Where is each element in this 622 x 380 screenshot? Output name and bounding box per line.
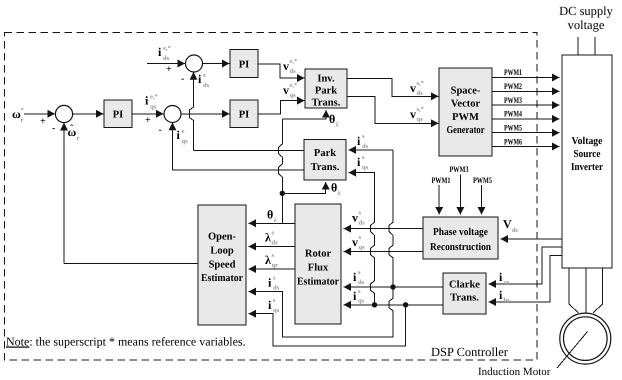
wire: theta to park transform	[282, 182, 325, 193]
svg-text:PWM5: PWM5	[473, 175, 492, 185]
wire: d-axis current reference input	[147, 63, 185, 65]
svg-text:e: e	[182, 128, 185, 135]
summing junction: d-axis current loop	[186, 55, 203, 72]
svg-text:Trans.: Trans.	[312, 98, 341, 109]
block: park transform	[304, 140, 346, 181]
svg-text:Park: Park	[314, 148, 336, 159]
svg-text:Inverter: Inverter	[571, 162, 603, 173]
svg-text:Phase voltage: Phase voltage	[433, 227, 488, 238]
block: inverse park transform	[305, 69, 347, 108]
svg-text:*: *	[21, 107, 24, 114]
induction motor inner circle	[564, 317, 608, 361]
wire: motor phase a	[569, 268, 579, 313]
wire: DC supply left lead	[577, 37, 579, 55]
svg-text:ds: ds	[359, 220, 366, 227]
block: voltage source inverter	[562, 55, 612, 268]
wire: theta to inverse park	[282, 110, 326, 119]
wire: inverse park q output to SVPWM	[347, 96, 439, 123]
svg-text:PI: PI	[113, 110, 124, 121]
node: theta branch junction	[280, 191, 285, 196]
svg-text:s: s	[358, 269, 361, 276]
svg-text:Space-: Space-	[451, 86, 481, 97]
svg-text:s: s	[359, 234, 362, 241]
svg-text:DSP Controller: DSP Controller	[431, 345, 509, 359]
svg-text:PWM4: PWM4	[504, 109, 523, 119]
wire: theta vertical with hops	[278, 119, 282, 223]
svg-text:e: e	[203, 72, 206, 79]
svg-text:PWM5: PWM5	[504, 123, 522, 133]
svg-text:ds: ds	[290, 68, 297, 75]
svg-text:i: i	[357, 134, 361, 148]
svg-text:qs: qs	[358, 298, 365, 305]
svg-text:s: s	[273, 275, 276, 282]
svg-text:PWM2: PWM2	[504, 81, 522, 91]
svg-text:V: V	[503, 217, 512, 231]
svg-text:PWM: PWM	[452, 112, 479, 123]
wire: d junction to d PI	[203, 63, 230, 65]
svg-text:qs: qs	[359, 244, 366, 251]
svg-text:ds: ds	[273, 285, 280, 292]
wire: PWM6 output	[492, 146, 560, 148]
svg-text:qs: qs	[182, 138, 189, 145]
svg-text:Speed: Speed	[209, 260, 236, 271]
svg-text:-: -	[52, 123, 55, 134]
wire: d PI output to inverse park	[258, 64, 305, 78]
svg-text:PI: PI	[239, 110, 250, 121]
motor label leader line	[557, 332, 588, 369]
wire: motor phase c	[593, 268, 603, 313]
induction motor outer circle	[560, 313, 611, 364]
svg-text:PWM3: PWM3	[504, 95, 522, 105]
wire: phase a current sense	[489, 247, 563, 284]
wire: lambda dr to speed estimator	[249, 246, 296, 248]
wire: lambda qr to speed estimator	[249, 268, 296, 270]
svg-text:PWM1: PWM1	[432, 175, 451, 185]
svg-text:Trans.: Trans.	[450, 293, 479, 304]
svg-text:Reconstruction: Reconstruction	[430, 242, 491, 253]
svg-text:v: v	[283, 59, 289, 73]
block: space vector PWM generator	[439, 68, 492, 156]
wire: speed junction to PI	[73, 113, 104, 115]
svg-text:s: s	[359, 210, 362, 217]
summing junction: speed loop	[55, 105, 72, 122]
svg-text:qs: qs	[290, 92, 297, 99]
wire: d-axis current feedback vertical with hop	[190, 72, 194, 150]
wire: DC supply right lead	[594, 37, 596, 55]
svg-text:ds: ds	[417, 90, 424, 97]
svg-text:Loop: Loop	[210, 246, 234, 257]
svg-text:voltage: voltage	[568, 18, 605, 32]
wire: phase b current sense	[489, 256, 563, 303]
block: PI d-axis current controller	[230, 50, 258, 78]
svg-text:i: i	[268, 276, 272, 290]
wire: speed feedback horizontal from estimator	[64, 263, 198, 265]
wire: reconstruction vds output to flux estimator	[344, 228, 424, 230]
wire: q PI output to inverse park	[258, 101, 305, 114]
wire: q-axis current feedback vertical	[172, 123, 174, 170]
block: open-loop speed estimator	[198, 205, 246, 325]
svg-text:dc: dc	[512, 227, 519, 234]
svg-text:v: v	[352, 211, 358, 225]
wire: theta to speed estimator	[249, 222, 296, 224]
svg-text:e,*: e,*	[150, 94, 158, 101]
svg-text:v: v	[410, 81, 416, 95]
wire: speed reference input	[24, 113, 55, 115]
block: rotor flux estimator	[295, 204, 341, 324]
svg-text:ds: ds	[362, 143, 369, 150]
svg-text:λ: λ	[338, 190, 342, 197]
svg-text:Generator: Generator	[447, 125, 485, 136]
wire: PWM4 output	[492, 118, 560, 120]
wire: speed feedback vertical	[63, 123, 65, 263]
wire: motor phase b	[585, 268, 587, 314]
svg-text:Inv.: Inv.	[317, 74, 335, 85]
wire: PWM5 output	[492, 132, 560, 134]
svg-text:qs: qs	[417, 116, 424, 123]
node: bus A junction on iqs line	[372, 302, 377, 307]
wire: PWM3 tap to reconstruction	[459, 175, 461, 215]
svg-text:λ: λ	[265, 231, 271, 245]
block: PI q-axis current controller	[230, 100, 258, 128]
svg-text:PWM1: PWM1	[504, 67, 522, 77]
svg-text:Rotor: Rotor	[305, 249, 332, 260]
svg-text:Clarke: Clarke	[449, 280, 480, 291]
svg-text:Induction Motor: Induction Motor	[478, 366, 551, 378]
node: bus B junction on ids line	[390, 284, 395, 289]
svg-text:Park: Park	[315, 86, 337, 97]
svg-text:λ: λ	[336, 122, 340, 129]
svg-text:Open-: Open-	[208, 232, 237, 243]
svg-text:v: v	[283, 83, 289, 97]
svg-text:qs: qs	[273, 307, 280, 314]
svg-text:i: i	[145, 94, 149, 108]
svg-text:i: i	[268, 298, 272, 312]
svg-text:s: s	[272, 252, 275, 259]
svg-text:Estimator: Estimator	[201, 273, 243, 284]
svg-text:s,*: s,*	[417, 106, 424, 113]
wire: bus A iqs to park input	[349, 173, 375, 305]
svg-text:s: s	[362, 133, 365, 140]
wire: park left output i_ds to d junction	[194, 150, 305, 152]
wire: speed PI output (q current ref)	[132, 113, 164, 115]
wire: PWM5 tap to reconstruction	[481, 185, 483, 215]
svg-text:i: i	[198, 72, 202, 86]
wire: iqs branch down to speed estimator	[249, 305, 406, 346]
svg-text:i: i	[499, 288, 503, 302]
svg-text:i: i	[499, 270, 503, 284]
wire: bus B ids to park input	[349, 149, 394, 151]
svg-text:s: s	[362, 154, 365, 161]
svg-text:PWM3: PWM3	[450, 164, 469, 174]
wire: bus B vertical	[249, 150, 394, 337]
wire: q junction to q PI (passes under d feedback)	[181, 113, 230, 115]
svg-text:PI: PI	[239, 60, 250, 71]
block: PI speed controller	[104, 100, 132, 128]
svg-text:i: i	[353, 270, 357, 284]
svg-text:bs: bs	[504, 297, 511, 304]
svg-text:qs: qs	[362, 164, 369, 171]
block: clarke transform	[443, 273, 486, 314]
svg-text:θ: θ	[331, 181, 337, 195]
svg-text:λ: λ	[265, 253, 271, 267]
svg-text:e,*: e,*	[290, 58, 298, 65]
wire: PWM1 output	[492, 77, 560, 79]
svg-text:ds: ds	[203, 82, 210, 89]
wire: PWM2 output	[492, 90, 560, 92]
wire: inverse park d output to SVPWM	[347, 78, 439, 96]
svg-text:dr: dr	[272, 240, 279, 247]
svg-text:e,*: e,*	[163, 45, 171, 52]
svg-text:PWM6: PWM6	[504, 137, 522, 147]
svg-text:Estimator: Estimator	[297, 277, 339, 288]
svg-text:i: i	[357, 155, 361, 169]
svg-text:ds: ds	[163, 55, 170, 62]
svg-text:qs: qs	[150, 104, 157, 111]
svg-text:θ: θ	[267, 208, 273, 222]
svg-text:i: i	[353, 289, 357, 303]
wire: PWM3 output	[492, 104, 560, 106]
svg-text:i: i	[177, 128, 181, 142]
svg-text:v: v	[352, 235, 358, 249]
svg-text:+: +	[166, 64, 172, 75]
summing junction: q-axis current loop	[164, 106, 181, 123]
wire: clarke iqs output to flux estimator	[344, 304, 444, 306]
svg-text:r: r	[77, 135, 80, 142]
svg-text:+: +	[40, 116, 46, 127]
svg-text:s,*: s,*	[417, 80, 424, 87]
svg-text:DC supply: DC supply	[559, 4, 614, 18]
wire: Vdc sense	[501, 238, 563, 240]
svg-text:s: s	[273, 297, 276, 304]
node: junction on iqs line for estimator branch	[403, 302, 408, 307]
svg-text:s: s	[358, 288, 361, 295]
svg-text:e,*: e,*	[290, 82, 298, 89]
svg-text:i: i	[158, 45, 162, 59]
block: phase voltage reconstruction	[423, 217, 498, 259]
wire: PWM1 tap to reconstruction	[438, 185, 440, 215]
svg-text:r: r	[21, 117, 24, 124]
svg-text:θ: θ	[329, 112, 335, 126]
DSP controller dashed boundary	[5, 33, 538, 361]
svg-text:s: s	[272, 230, 275, 237]
wire: clarke ids output to flux estimator	[344, 286, 444, 288]
svg-text:-: -	[181, 74, 184, 85]
svg-text:Source: Source	[574, 149, 601, 160]
svg-text:as: as	[504, 279, 510, 286]
svg-text:v: v	[410, 107, 416, 121]
svg-text:Voltage: Voltage	[572, 136, 603, 147]
wire: reconstruction vqs output to flux estimator	[344, 251, 424, 253]
svg-text:-: -	[159, 125, 162, 136]
svg-text:Note: the superscript * means: Note: the superscript * means reference …	[6, 335, 246, 349]
svg-text:+: +	[145, 115, 151, 126]
svg-text:ds: ds	[358, 279, 365, 286]
svg-text:Trans.: Trans.	[311, 162, 340, 173]
svg-text:Flux: Flux	[308, 263, 329, 274]
svg-text:Vector: Vector	[451, 99, 481, 110]
wire: park left output i_qs to q junction	[173, 169, 305, 171]
svg-text:qr: qr	[272, 262, 279, 269]
